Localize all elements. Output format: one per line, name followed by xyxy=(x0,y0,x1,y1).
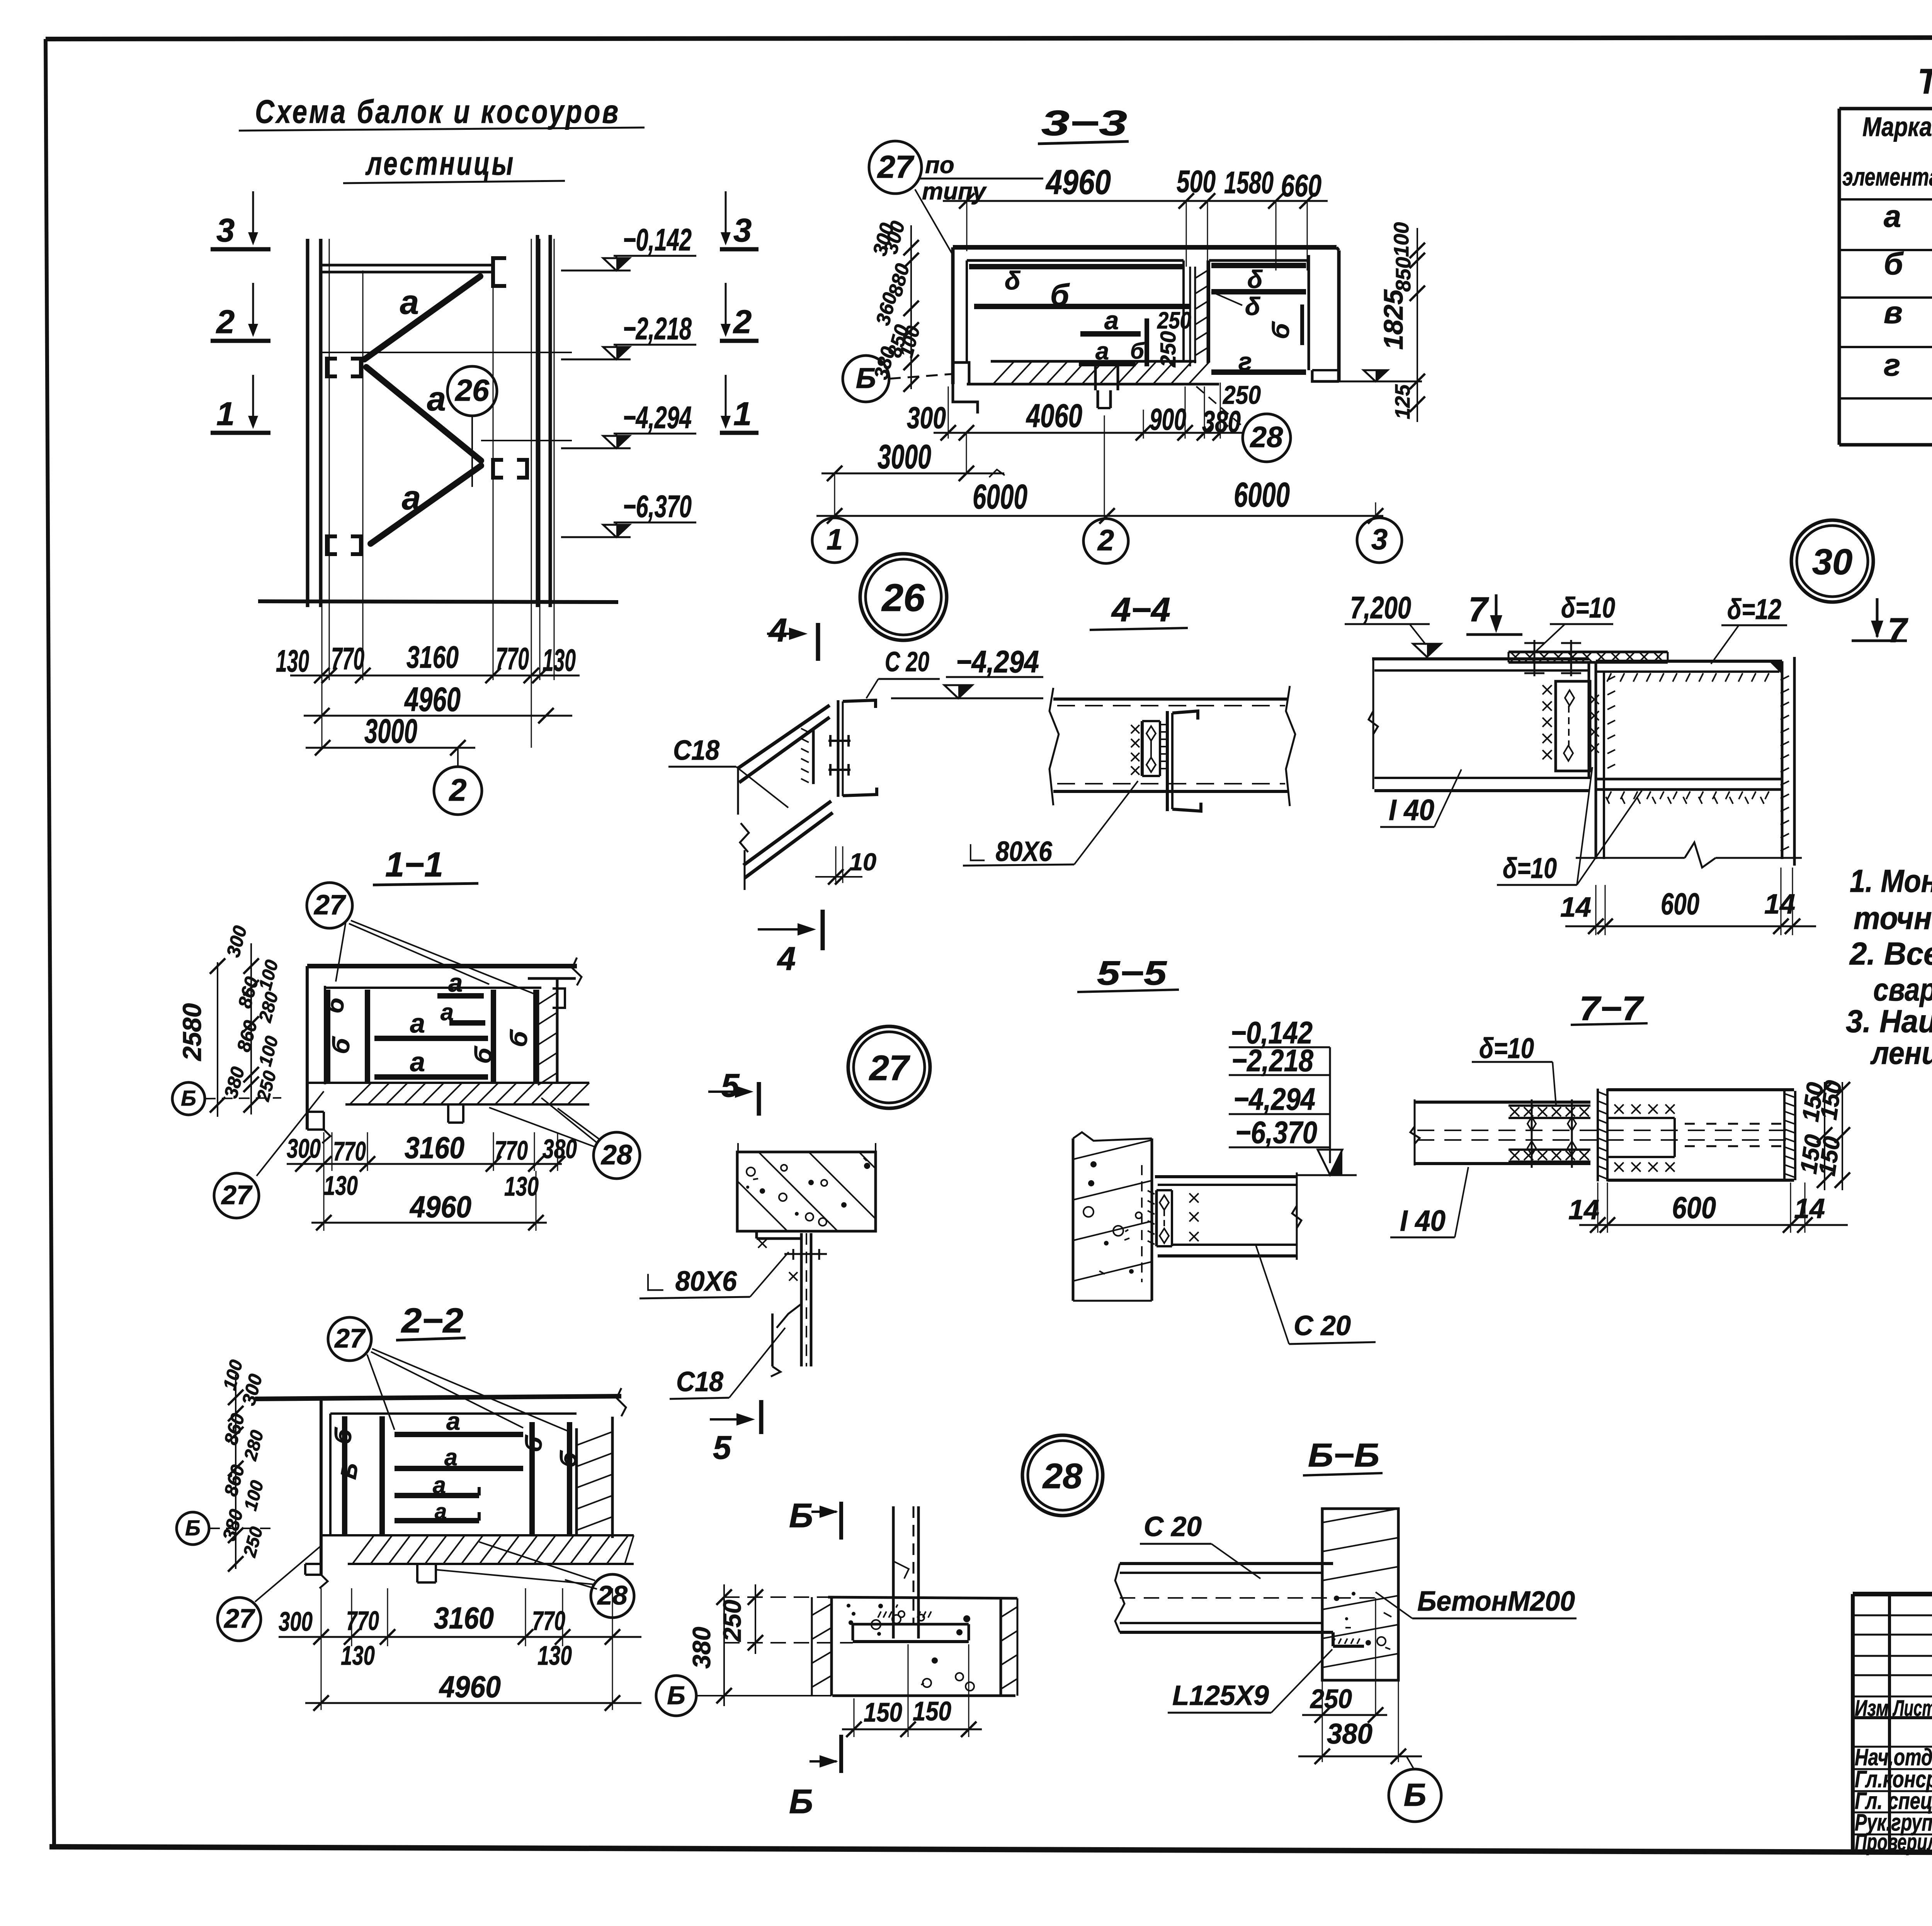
svg-text:−6,370: −6,370 xyxy=(623,489,692,524)
svg-text:5−5: 5−5 xyxy=(1097,954,1167,992)
svg-text:Б−Б: Б−Б xyxy=(1308,1437,1379,1474)
svg-text:С18: С18 xyxy=(673,735,719,766)
svg-text:a: a xyxy=(427,379,446,418)
svg-text:−4,294: −4,294 xyxy=(623,400,692,435)
svg-text:26: 26 xyxy=(454,373,490,407)
svg-text:δ=12: δ=12 xyxy=(1727,593,1781,625)
svg-text:130: 130 xyxy=(341,1640,375,1671)
svg-text:130: 130 xyxy=(537,1640,572,1671)
svg-text:3160: 3160 xyxy=(405,1130,464,1165)
svg-text:δ: δ xyxy=(1245,292,1260,320)
svg-text:δ=10: δ=10 xyxy=(1479,1032,1534,1064)
svg-text:3000: 3000 xyxy=(364,712,417,750)
svg-text:3: 3 xyxy=(216,212,235,249)
svg-text:Марка: Марка xyxy=(1862,112,1932,142)
svg-text:Б: Б xyxy=(789,1782,813,1821)
svg-text:770: 770 xyxy=(346,1606,379,1636)
svg-text:С 20: С 20 xyxy=(1294,1310,1351,1341)
svg-text:б: б xyxy=(1130,339,1145,364)
svg-text:900: 900 xyxy=(1150,402,1186,436)
svg-text:a: a xyxy=(440,999,454,1025)
svg-text:600: 600 xyxy=(1672,1190,1716,1225)
svg-text:Б: Б xyxy=(789,1496,813,1535)
svg-text:δ=10: δ=10 xyxy=(1561,592,1615,624)
svg-text:26: 26 xyxy=(881,576,925,619)
svg-text:4−4: 4−4 xyxy=(1111,590,1170,629)
svg-text:г: г xyxy=(1884,348,1900,383)
svg-text:150: 150 xyxy=(864,1697,902,1727)
svg-text:6000: 6000 xyxy=(1234,476,1290,514)
svg-text:1825: 1825 xyxy=(1378,289,1408,350)
svg-text:130: 130 xyxy=(543,643,576,678)
svg-text:7: 7 xyxy=(1888,611,1908,650)
svg-text:a: a xyxy=(402,478,421,517)
svg-text:лестницы: лестницы xyxy=(365,145,515,182)
svg-text:300: 300 xyxy=(287,1133,321,1164)
svg-text:a: a xyxy=(1884,199,1901,234)
svg-text:сварку производить электрода: сварку производить электродами типа Э-42… xyxy=(1873,972,1932,1007)
svg-text:a: a xyxy=(446,1407,460,1435)
svg-text:−2,218: −2,218 xyxy=(623,311,692,346)
svg-text:Б: Б xyxy=(1404,1777,1427,1813)
svg-text:125: 125 xyxy=(1391,384,1414,419)
svg-text:∟ 80X6: ∟ 80X6 xyxy=(965,836,1053,867)
svg-text:4060: 4060 xyxy=(1026,398,1082,434)
svg-text:5: 5 xyxy=(713,1429,732,1466)
svg-text:150: 150 xyxy=(913,1696,951,1726)
svg-text:Таблица элементов конструкци: Таблица элементов конструкций xyxy=(1918,62,1932,101)
svg-text:3000: 3000 xyxy=(878,437,931,476)
svg-text:28: 28 xyxy=(1042,1456,1083,1496)
svg-text:3160: 3160 xyxy=(406,640,459,675)
svg-text:Изм: Изм xyxy=(1855,1696,1889,1721)
svg-text:a: a xyxy=(435,1499,447,1523)
svg-text:4: 4 xyxy=(768,612,787,649)
svg-text:500: 500 xyxy=(1177,164,1216,199)
svg-text:4960: 4960 xyxy=(439,1669,501,1704)
svg-text:7−7: 7−7 xyxy=(1579,989,1644,1028)
svg-text:300: 300 xyxy=(907,400,946,435)
svg-text:δ=10: δ=10 xyxy=(1503,852,1557,884)
svg-text:150: 150 xyxy=(1815,1079,1847,1121)
svg-text:4960: 4960 xyxy=(1045,163,1111,202)
svg-text:−2,218: −2,218 xyxy=(1231,1043,1313,1078)
svg-text:Б: Б xyxy=(667,1681,685,1710)
svg-text:б: б xyxy=(1884,247,1904,281)
svg-text:БетонМ200: БетонМ200 xyxy=(1417,1586,1575,1617)
svg-text:30: 30 xyxy=(1812,541,1853,582)
svg-text:I 40: I 40 xyxy=(1389,794,1434,827)
svg-text:2: 2 xyxy=(1097,524,1114,557)
svg-text:2: 2 xyxy=(216,304,235,340)
svg-text:380: 380 xyxy=(1327,1718,1372,1750)
svg-text:14: 14 xyxy=(1764,889,1795,920)
svg-text:380: 380 xyxy=(1202,404,1241,439)
svg-text:600: 600 xyxy=(1661,886,1699,921)
svg-text:a: a xyxy=(433,1472,446,1498)
svg-text:27: 27 xyxy=(313,890,346,920)
svg-text:1: 1 xyxy=(827,523,843,556)
svg-text:элемента: элемента xyxy=(1842,163,1932,191)
svg-text:4960: 4960 xyxy=(409,1189,471,1224)
svg-text:770: 770 xyxy=(532,1606,565,1636)
svg-text:660: 660 xyxy=(1281,168,1321,203)
svg-text:14: 14 xyxy=(1794,1193,1825,1224)
svg-text:100: 100 xyxy=(1390,222,1413,257)
svg-text:770: 770 xyxy=(496,641,529,676)
svg-text:С 20: С 20 xyxy=(885,647,929,677)
svg-text:28: 28 xyxy=(600,1140,632,1171)
svg-text:Б: Б xyxy=(181,1086,196,1110)
svg-text:2: 2 xyxy=(448,773,466,808)
svg-text:14: 14 xyxy=(1560,892,1591,923)
svg-text:Проверил: Проверил xyxy=(1855,1829,1932,1855)
svg-text:770: 770 xyxy=(333,1136,366,1166)
svg-text:1−1: 1−1 xyxy=(385,846,443,884)
svg-text:130: 130 xyxy=(504,1171,539,1201)
svg-text:27: 27 xyxy=(334,1323,366,1353)
svg-text:2−2: 2−2 xyxy=(401,1302,463,1340)
svg-text:I 40: I 40 xyxy=(1400,1205,1446,1237)
svg-text:7,200: 7,200 xyxy=(1350,590,1411,625)
svg-text:770: 770 xyxy=(495,1135,528,1165)
svg-text:3160: 3160 xyxy=(434,1601,494,1635)
svg-text:1. Монтаж вести на болтах: 1. Монтаж вести на болтах нормальной xyxy=(1850,863,1932,899)
svg-text:a: a xyxy=(410,1047,425,1077)
svg-text:850: 850 xyxy=(1392,257,1415,292)
svg-text:3: 3 xyxy=(733,212,752,249)
svg-text:С18: С18 xyxy=(676,1366,723,1397)
svg-text:−6,370: −6,370 xyxy=(1235,1115,1317,1150)
svg-text:2. Все заводские соединения: 2. Все заводские соединения сварные, xyxy=(1849,936,1932,972)
svg-text:7: 7 xyxy=(1468,590,1489,629)
svg-text:точности М20 и монтажной с: точности М20 и монтажной сварке. xyxy=(1854,900,1932,936)
svg-text:a: a xyxy=(444,1444,457,1470)
svg-text:14: 14 xyxy=(1568,1194,1599,1225)
svg-text:по: по xyxy=(925,152,954,179)
svg-text:2580: 2580 xyxy=(178,1003,207,1062)
svg-text:С 20: С 20 xyxy=(1144,1511,1202,1542)
svg-text:380: 380 xyxy=(687,1627,716,1669)
svg-text:150: 150 xyxy=(1814,1135,1845,1177)
svg-text:в: в xyxy=(1884,295,1903,330)
svg-text:300: 300 xyxy=(279,1606,313,1637)
svg-text:250: 250 xyxy=(718,1600,746,1642)
svg-text:L125X9: L125X9 xyxy=(1172,1680,1269,1711)
svg-text:27: 27 xyxy=(223,1603,255,1633)
svg-text:3: 3 xyxy=(1371,523,1388,556)
svg-text:130: 130 xyxy=(324,1171,358,1201)
svg-text:3−3: 3−3 xyxy=(1041,104,1127,143)
svg-text:4: 4 xyxy=(777,941,796,977)
svg-text:Б: Б xyxy=(185,1516,201,1540)
svg-text:6000: 6000 xyxy=(973,478,1027,516)
svg-text:250: 250 xyxy=(1310,1684,1352,1714)
svg-text:−4,294: −4,294 xyxy=(956,645,1039,679)
svg-text:1580: 1580 xyxy=(1224,165,1274,200)
svg-text:−4,294: −4,294 xyxy=(1233,1082,1315,1117)
svg-text:a: a xyxy=(448,968,463,997)
svg-text:∟ 80X6: ∟ 80X6 xyxy=(642,1266,737,1297)
svg-text:27: 27 xyxy=(877,149,915,185)
svg-text:1: 1 xyxy=(216,396,235,432)
svg-text:28: 28 xyxy=(1250,421,1283,454)
svg-text:2: 2 xyxy=(733,304,752,340)
svg-text:380: 380 xyxy=(543,1134,577,1164)
svg-text:130: 130 xyxy=(276,644,309,679)
svg-text:δ: δ xyxy=(1005,266,1020,295)
svg-text:250: 250 xyxy=(1157,307,1191,333)
svg-text:Лист: Лист xyxy=(1892,1696,1932,1721)
svg-text:Схема балок и косоуров: Схема балок и косоуров xyxy=(255,94,620,130)
svg-text:10: 10 xyxy=(849,849,876,876)
svg-text:5: 5 xyxy=(721,1067,740,1104)
svg-text:1: 1 xyxy=(733,396,752,432)
svg-text:27: 27 xyxy=(221,1180,253,1210)
svg-text:770: 770 xyxy=(331,641,364,676)
svg-text:a: a xyxy=(410,1008,425,1038)
svg-text:ления - 5т.: ления - 5т. xyxy=(1870,1035,1932,1071)
svg-text:3. Наименьшее усилие для ра: 3. Наименьшее усилие для расчета прикреп… xyxy=(1846,1003,1932,1039)
svg-text:a: a xyxy=(1104,306,1119,335)
svg-text:−0,142: −0,142 xyxy=(623,223,692,257)
svg-text:27: 27 xyxy=(869,1048,910,1088)
svg-text:a: a xyxy=(400,283,419,321)
